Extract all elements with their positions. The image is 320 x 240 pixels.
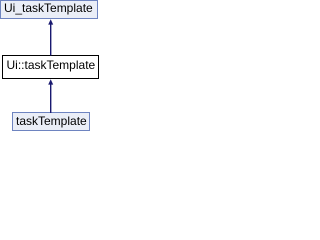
inheritance arrow from taskTemplate to Ui::taskTemplate [48, 79, 53, 113]
inheritance arrow from Ui::taskTemplate to Ui_taskTemplate [48, 19, 53, 55]
node taskTemplate [12, 112, 90, 131]
node Ui_taskTemplate [0, 0, 98, 19]
node Ui::taskTemplate [2, 55, 99, 79]
